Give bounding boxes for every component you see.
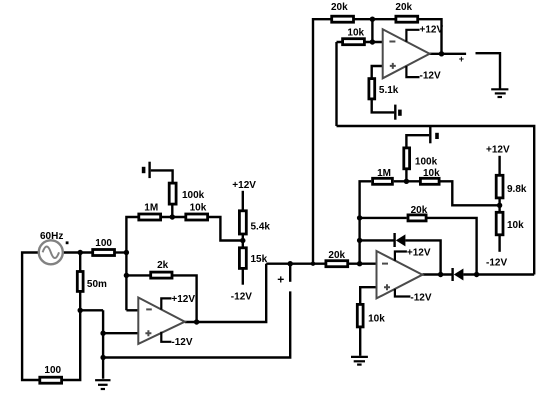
ground (left, earth) — [95, 380, 110, 389]
wire 2k to output — [172, 275, 197, 322]
wire top probe ground lead — [476, 53, 501, 89]
svg-text:1M: 1M — [144, 202, 158, 213]
wire top opamp plus input to 5.1k — [372, 66, 383, 80]
top opamp -12V pin bracket — [406, 66, 419, 77]
source sine wave — [43, 247, 59, 258]
svg-text:9.8k: 9.8k — [507, 184, 527, 195]
node mid output after diode — [474, 272, 479, 277]
svg-text:-12V: -12V — [171, 337, 192, 348]
POWER BRACKETS — [161, 30, 419, 342]
resistor 2k — [151, 272, 172, 278]
svg-text:5.4k: 5.4k — [251, 222, 271, 233]
mid opamp -12V pin bracket — [395, 289, 411, 297]
op-amp U3 (top right) — [383, 29, 430, 78]
wire 1M-column vertical — [126, 217, 138, 310]
svg-text:10k: 10k — [507, 220, 524, 231]
diode D1 (feedback, cathode bar) — [393, 233, 395, 247]
node top opamp output — [439, 51, 444, 56]
node main row 20k-column tap — [311, 262, 315, 266]
node 20k-mid tap — [357, 215, 362, 220]
svg-text:+12V: +12V — [486, 145, 510, 156]
source V 60Hz circle — [39, 240, 63, 264]
svg-text:-12V: -12V — [486, 258, 507, 269]
node opamp1 plus input — [100, 331, 105, 336]
resistor 1M (mid block) — [373, 178, 393, 184]
resistor 10k (right divider) — [496, 212, 503, 235]
op-amp U2 (middle) — [377, 251, 423, 298]
svg-text:60Hz: 60Hz — [40, 231, 63, 242]
svg-text:10k: 10k — [423, 168, 440, 179]
svg-text:20k: 20k — [411, 205, 428, 216]
svg-text:+12V: +12V — [232, 180, 256, 191]
ground (sideways, left block 100k) — [144, 162, 150, 178]
node opamp1 output — [194, 319, 199, 324]
wire 10k-left to 5.4k junction — [208, 217, 243, 241]
wire 10k-right to -12V — [498, 236, 500, 252]
wire 20k-2 to feedback corner — [418, 19, 442, 54]
node right divider junction — [497, 203, 502, 208]
wire 5.4k to 15k junction — [242, 234, 244, 248]
svg-text:2k: 2k — [157, 260, 169, 271]
node 100 to 1M-column — [124, 250, 129, 255]
wire source node down to 50m — [79, 253, 81, 273]
node probe plus tap — [288, 261, 293, 266]
svg-text:5.1k: 5.1k — [379, 85, 399, 96]
wire top node down to 10k row — [371, 19, 373, 42]
svg-text:20k: 20k — [328, 250, 345, 261]
wire +12V stub to 5.4k — [242, 191, 244, 211]
wire opamp1 output — [185, 264, 266, 322]
svg-text:10k: 10k — [190, 202, 207, 213]
wire mid 100k bottom to row — [405, 168, 407, 181]
node bottom rail tap — [100, 355, 105, 360]
resistor 10k (mid opamp plus input) — [357, 304, 363, 327]
resistor 10k (mid block) — [420, 178, 439, 184]
wire mid 10k to right divider junction — [441, 181, 500, 205]
wire node to ground column — [80, 309, 103, 311]
svg-text:50m: 50m — [87, 279, 107, 290]
ground (sideways, mid 100k) — [430, 127, 437, 143]
wire long horizontal rail and right rail — [337, 126, 535, 275]
wire between top 20k resistors — [354, 18, 396, 20]
wire source left loop — [22, 253, 39, 381]
resistor 5.1k — [369, 79, 375, 99]
node mid output diode-anode — [438, 272, 443, 277]
wire diode feedback row left — [360, 239, 394, 241]
svg-text:-12V: -12V — [231, 292, 252, 303]
resistor 9.8k — [496, 175, 503, 198]
resistor 5.4k — [239, 211, 246, 234]
resistor 100k (mid block, vertical) — [404, 148, 410, 169]
wire 15k to -12V — [242, 269, 244, 285]
resistor 50m — [77, 272, 83, 292]
node 50m bottom — [78, 308, 83, 313]
svg-text:+: + — [277, 272, 284, 286]
svg-text:100: 100 — [95, 238, 112, 249]
svg-text:20k: 20k — [331, 2, 348, 13]
wire 1M to 10k row — [161, 216, 185, 218]
node top 20k junction — [370, 17, 375, 22]
wire opamp1 plus input — [103, 332, 138, 334]
wire 100k-left bottom to row — [171, 204, 173, 217]
svg-text:10k: 10k — [368, 314, 385, 325]
svg-text:20k: 20k — [395, 2, 412, 13]
resistor 100 (bottom) — [40, 377, 62, 383]
wire +12V stub to 9.8k — [498, 156, 500, 176]
top opamp +12V pin bracket — [406, 30, 419, 42]
svg-text:+12V: +12V — [407, 248, 431, 259]
node mid opamp minus input — [357, 261, 362, 266]
wire mid opamp output to diode — [422, 273, 452, 275]
wire bottom rail to probe minus lead — [103, 291, 290, 357]
wire down to bottom 100 resistor — [62, 310, 80, 380]
wire top 20k left end down to main row — [313, 19, 332, 264]
diode D2 triangle — [454, 269, 464, 281]
resistor 15k — [239, 248, 246, 269]
ground (mid opamp 10k, earth) — [351, 357, 368, 365]
op-amp U1 (left) — [138, 298, 185, 344]
resistor 10k (left block) — [186, 214, 208, 220]
source polarity dot — [66, 241, 69, 244]
wire V2 column vertical — [360, 181, 372, 263]
svg-text:+: + — [459, 54, 464, 64]
wire opamp1 minus input — [126, 309, 138, 311]
wire ground column vertical — [102, 310, 104, 379]
wire output diode to right rail — [463, 273, 534, 275]
wire 2k feedback row — [126, 274, 150, 276]
wire main row to mid opamp — [266, 263, 376, 265]
RESISTORS — [40, 16, 503, 383]
svg-text:+12V: +12V — [420, 25, 444, 36]
wire node to 1M-column — [115, 251, 126, 253]
GROUNDS — [95, 89, 508, 389]
wire 10k-top row to opamp minus — [337, 41, 383, 43]
svg-text:15k: 15k — [251, 254, 268, 265]
wire mid 100k top to sideways ground — [406, 135, 429, 148]
wire 20k-mid feedback row — [360, 217, 407, 219]
wire top opamp output — [430, 53, 467, 55]
wire 50m bottom to node — [79, 292, 81, 311]
mid opamp +12V pin bracket — [395, 252, 407, 261]
resistor 20k (main row) — [326, 261, 348, 267]
wire 5.1k bottom to sideways ground — [372, 100, 395, 113]
node 5.4k-15k junction — [240, 238, 245, 243]
opamp1 -12V pin bracket — [161, 332, 171, 342]
wire source output to node — [63, 251, 92, 253]
wire mid 1M to 10k row — [394, 180, 419, 182]
diode D2 (output, cathode bar) — [451, 268, 453, 281]
node 2k feedback tap — [124, 273, 129, 278]
svg-text:10k: 10k — [347, 28, 364, 39]
ground (top right probe, earth) — [491, 89, 508, 97]
DIODES — [395, 233, 464, 281]
wire 10k-top left end down to long rail — [335, 42, 337, 126]
wire 9.8k to 10k junction — [498, 199, 500, 213]
svg-text:+12V: +12V — [171, 294, 195, 305]
resistor 10k (top input) — [343, 39, 365, 45]
wire mid opamp plus input to 10k — [360, 287, 376, 305]
wire probe plus lead — [289, 264, 291, 282]
wire 100k-left top to ground — [151, 170, 173, 183]
resistor 1M (left block) — [139, 214, 161, 220]
node diode feedback tap — [357, 238, 362, 243]
wire diode feedback to output node — [405, 240, 440, 274]
opamp1 +12V pin bracket — [161, 298, 171, 309]
svg-text:-12V: -12V — [420, 70, 441, 81]
wire 20k-mid right end down to output node — [428, 218, 477, 275]
svg-text:-12V: -12V — [410, 293, 431, 304]
resistor 20k (mid feedback) — [408, 215, 426, 221]
AC SOURCE — [39, 240, 69, 264]
wire 10k-mid2 bottom to ground — [359, 327, 361, 356]
resistor 100 (source series) — [93, 250, 115, 256]
node mid 100k bottom — [404, 179, 409, 184]
svg-text:100: 100 — [44, 365, 61, 376]
resistor 20k (top feedback 2) — [396, 16, 418, 22]
svg-text:1M: 1M — [377, 168, 391, 179]
resistor 100k (left block, vertical) — [169, 183, 176, 204]
resistor 20k (top feedback 1) — [332, 16, 354, 22]
node top opamp minus input — [370, 39, 375, 44]
svg-text:100k: 100k — [415, 156, 438, 167]
diode D1 triangle — [396, 234, 406, 246]
node source-100 junction — [78, 250, 83, 255]
ground (sideways, 5.1k) — [395, 105, 400, 120]
node 100k-left bottom — [170, 214, 175, 219]
svg-text:100k: 100k — [182, 190, 205, 201]
